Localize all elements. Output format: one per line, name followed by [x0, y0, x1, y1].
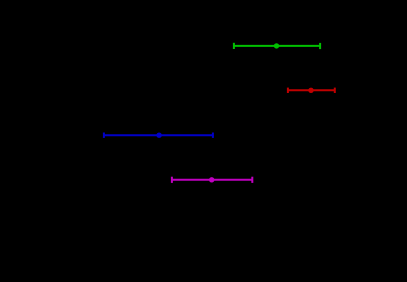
series 2: red error bar	[288, 88, 335, 93]
series 4: magenta error bar	[172, 177, 252, 183]
series 1: green error bar	[234, 43, 320, 49]
series 3: blue error bar	[104, 133, 213, 138]
